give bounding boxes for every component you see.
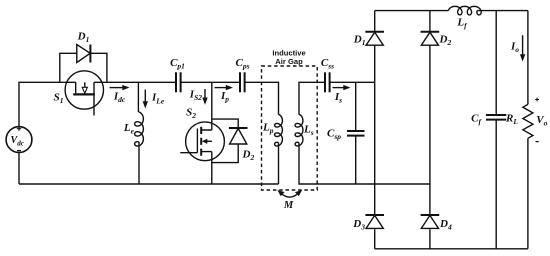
Vdc source V_dc	[6, 127, 32, 153]
svg-text:S1: S1	[54, 92, 64, 106]
svg-text:IS2: IS2	[189, 89, 202, 103]
wire : primary bottom rail	[19, 183, 279, 185]
svg-text:Le: Le	[123, 122, 135, 136]
wire : bottom rail	[375, 248, 528, 250]
wire : right branch with load	[527, 11, 529, 249]
wire : main line S1 to Cp1, junction at Le	[107, 81, 176, 83]
svg-text:M: M	[283, 200, 294, 211]
inductor Le	[135, 112, 144, 146]
svg-text:Lp: Lp	[262, 122, 274, 136]
svg-text:S2: S2	[186, 107, 196, 121]
diode D2 (antiparallel with S2)	[229, 128, 248, 144]
inductor Lp (primary coil)	[275, 114, 283, 146]
arrow + label I_s	[333, 85, 351, 105]
wire : top rail	[375, 10, 528, 12]
svg-text:D2: D2	[242, 148, 255, 162]
inductor Lf	[448, 6, 481, 15]
wire : bypass loop around S1	[60, 53, 107, 82]
wire : Vdc bottom to rail	[18, 153, 20, 185]
capacitor C_sp branch	[347, 82, 365, 184]
wire : Ls bottom + secondary rail to leg2	[299, 143, 430, 184]
svg-text:Inductive: Inductive	[272, 48, 305, 57]
wire : Le bottom to rail	[138, 142, 140, 184]
svg-text:Lf: Lf	[456, 17, 468, 31]
MOSFET S2	[180, 122, 224, 161]
wire : D2 antiparallel loop	[212, 119, 238, 163]
svg-text:Air Gap: Air Gap	[275, 57, 303, 66]
svg-text:RL: RL	[505, 113, 518, 127]
wire : left riser from Vdc to main line	[19, 82, 60, 126]
svg-text:Is: Is	[334, 91, 342, 105]
svg-text:Idc: Idc	[113, 90, 126, 104]
wire : bridge leg2 vertical	[429, 11, 431, 249]
svg-text:Csp: Csp	[327, 128, 341, 142]
mutual inductance arrow M	[277, 190, 302, 211]
svg-text:D2: D2	[439, 34, 452, 48]
svg-text:Ls: Ls	[303, 124, 314, 138]
wire : Cp1 to Cps with S2 junction	[181, 81, 240, 83]
capacitor C_ps	[240, 72, 245, 92]
arrow + label I_dc	[110, 85, 130, 104]
wire : S2 source to rail	[211, 152, 213, 184]
label V_o with polarity	[535, 98, 547, 142]
arrow + label I_S2	[189, 89, 208, 105]
resistor R_L	[523, 104, 533, 138]
svg-text:Cps: Cps	[235, 57, 249, 71]
diode D1 (bridge top-left)	[365, 32, 384, 45]
capacitor Cf	[486, 115, 506, 120]
svg-text:Io: Io	[510, 41, 519, 55]
wire : Ls top to Css	[299, 82, 325, 114]
svg-text:D4: D4	[439, 218, 452, 232]
svg-text:Vo: Vo	[536, 114, 547, 128]
MOSFET S1 (in circle, on main line)	[60, 71, 107, 116]
inductor Ls (secondary coil)	[295, 114, 303, 146]
svg-text:Css: Css	[321, 57, 334, 71]
svg-text:Cf: Cf	[471, 113, 482, 127]
arrow + label I_p	[215, 85, 234, 104]
wire : Le branch down from main line	[137, 82, 139, 112]
svg-text:D1: D1	[353, 34, 366, 48]
svg-text:D3: D3	[352, 218, 365, 232]
dashed box inductive air gap	[262, 66, 318, 190]
arrow + label I_Le	[143, 90, 165, 109]
capacitor C_p1	[176, 72, 181, 92]
wire : Cf branch	[495, 11, 497, 249]
diode D2 (bridge top-right)	[421, 32, 440, 45]
svg-text:Ip: Ip	[220, 90, 229, 104]
wire : S2 drain from main line	[211, 82, 213, 130]
svg-text:D1: D1	[77, 30, 90, 44]
svg-text:Cp1: Cp1	[170, 57, 185, 71]
diode D4 (bridge bottom-right)	[421, 215, 440, 228]
arrow + label I_o	[510, 35, 525, 61]
wire : bridge leg1 vertical	[374, 11, 376, 249]
wire : Lp bottom to primary rail	[278, 143, 280, 184]
capacitor C_ss	[325, 72, 330, 92]
svg-text:ILe: ILe	[151, 92, 165, 106]
svg-text:Vdc: Vdc	[11, 135, 24, 147]
diode D1 (snubber, pointing right)	[77, 45, 91, 63]
label Inductive Air Gap	[272, 48, 305, 66]
wire : Cps to Lp corner	[245, 82, 279, 114]
diode D3 (bridge bottom-left)	[365, 215, 384, 228]
wire : Css to bridge leg1	[330, 81, 375, 83]
